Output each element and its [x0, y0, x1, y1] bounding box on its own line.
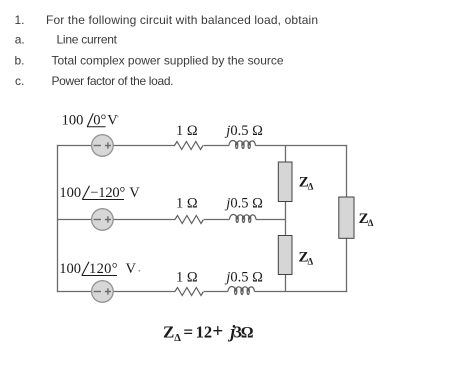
svg-text:1.: 1. [15, 13, 25, 27]
svg-text:j0.5 Ω: j0.5 Ω [224, 123, 263, 139]
svg-text:100: 100 [62, 112, 84, 128]
voltage source V2 (100 angle -120 deg) [92, 209, 114, 231]
svg-text:0°: 0° [93, 112, 106, 128]
wire: middle delta branch vertical through Z1 and Z2 [285, 146, 287, 292]
value label Z2 "Z-delta" [299, 249, 314, 266]
svg-text:1 Ω: 1 Ω [176, 269, 198, 285]
value label Z1 "Z-delta" [299, 174, 314, 191]
svg-text:For the following circuit with: For the following circuit with balanced … [46, 13, 318, 27]
svg-text:Line current: Line current [57, 33, 118, 47]
inductor L1 (j0.5 ohm, phase A) [229, 141, 255, 149]
svg-text:+: + [212, 321, 223, 342]
wire: phase C resistor R3 to inductor L3 [204, 291, 228, 293]
svg-text:V: V [126, 261, 137, 277]
svg-text:j0.5 Ω: j0.5 Ω [224, 269, 263, 285]
equation "Z-delta = 12 + j3 Ohm" [163, 321, 254, 344]
svg-text:a.: a. [15, 33, 25, 47]
resistor R3 (1 ohm, phase C) [175, 288, 204, 296]
svg-text:Δ: Δ [308, 256, 314, 266]
svg-text:Z: Z [163, 323, 174, 342]
svg-text:j0.5 Ω: j0.5 Ω [224, 195, 263, 211]
svg-text:120°: 120° [89, 261, 118, 277]
svg-text:=: = [183, 323, 193, 342]
svg-text:c.: c. [15, 74, 24, 88]
problem text line a [15, 33, 118, 47]
wire: left bus (vertical) [57, 145, 59, 292]
resistor R1 (1 ohm, phase A) [175, 142, 204, 150]
impedance Z1 (Z-delta between phase A and B) [278, 162, 292, 202]
voltage source V3 (100 angle 120 deg) [92, 281, 114, 303]
problem text line 1 [15, 13, 319, 27]
resistor R2 (1 ohm, phase B) [175, 216, 204, 224]
wire: phase C inductor L3 to right branch corner [254, 291, 347, 293]
wire: phase B resistor R2 to inductor L2 [204, 219, 230, 221]
wire: phase A resistor R1 to inductor L1 [204, 145, 230, 147]
value label V2 "100 angle -120 deg V" [59, 185, 140, 201]
svg-text:Power factor of the load.: Power factor of the load. [52, 74, 174, 88]
value label V1 "100 angle 0 deg V" [62, 112, 119, 128]
svg-text:1 Ω: 1 Ω [176, 195, 198, 211]
svg-text:b.: b. [15, 53, 25, 67]
svg-text:Δ: Δ [174, 333, 181, 344]
svg-text:Δ: Δ [308, 181, 314, 191]
value label Z3 "Z-delta" [359, 211, 374, 228]
wire: phase B inductor L2 to delta node between Z1 and Z2 [256, 219, 286, 221]
problem text line b [15, 53, 284, 67]
svg-text:Ω: Ω [241, 325, 254, 342]
problem text line c [15, 74, 174, 88]
svg-text:−120°: −120° [90, 185, 125, 201]
wire: phase A inductor L1 to right branch corner [255, 145, 347, 147]
wire: phase B source V2 to resistor R2 [113, 219, 175, 221]
wire: phase B bus to source V2 [57, 219, 92, 221]
svg-text:V: V [129, 185, 140, 201]
svg-text:12: 12 [196, 323, 213, 342]
wire: phase C source V3 to resistor R3 [113, 291, 175, 293]
svg-text:100: 100 [59, 261, 81, 277]
inductor L2 (j0.5 ohm, phase B) [230, 215, 256, 223]
svg-text:100: 100 [59, 185, 81, 201]
wire: right delta branch vertical through Z3 [346, 145, 348, 292]
inductor L3 (j0.5 ohm, phase C) [228, 287, 254, 295]
wire: phase A source V1 to resistor R1 [113, 145, 175, 147]
impedance Z2 (Z-delta between phase B and C) [278, 236, 292, 275]
svg-text:Total complex power supplied b: Total complex power supplied by the sour… [52, 53, 284, 67]
wire: phase A bus to source V1 [57, 145, 92, 147]
value label V3 "100 angle 120 deg V" [59, 261, 140, 277]
impedance Z3 (Z-delta between phase A and C) [339, 197, 354, 238]
wire: phase C bus to source V3 [57, 291, 92, 293]
voltage source V1 (100 angle 0 deg) [92, 135, 114, 157]
svg-text:V: V [107, 112, 118, 128]
svg-text:Δ: Δ [368, 218, 374, 228]
svg-text:1 Ω: 1 Ω [176, 123, 198, 139]
